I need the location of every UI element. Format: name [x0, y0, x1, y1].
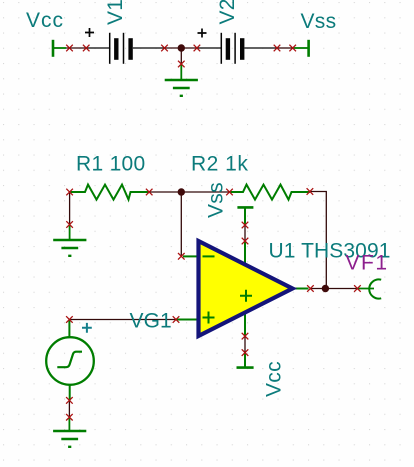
connection cross at R1 right pin	[146, 189, 153, 196]
connection cross at mid ground pin	[178, 61, 185, 68]
op-amp U1 pin stubs	[176, 256, 309, 319]
wire VG1 to ground	[68, 400, 70, 417]
wire V1 to mid junction	[165, 47, 198, 49]
junction dot node A (R1-R2-inverting input)	[178, 188, 185, 195]
connection cross at V2 left pin	[194, 45, 201, 52]
wire R1 left to ground	[69, 192, 71, 225]
connection cross at R2 left pin	[226, 189, 233, 196]
svg-text:VF1: VF1	[346, 252, 389, 275]
connection cross at Vss terminal pin	[289, 45, 296, 52]
op-amp U1 inverting input minus sign	[203, 255, 215, 257]
connection cross at VG1 top pin	[66, 316, 73, 323]
svg-text:Vss: Vss	[301, 10, 337, 33]
source VG1 circle	[46, 337, 94, 385]
terminal Vcc (op-amp positive supply T-bar)	[237, 311, 254, 368]
op-amp U1 triangle body	[199, 241, 293, 336]
wire Vcc terminal to V1	[66, 47, 88, 49]
op-amp U1 center plus sign	[240, 290, 252, 302]
connection cross at V1 left pin	[83, 45, 90, 52]
op-amp U1 non-inverting input plus sign	[203, 312, 215, 324]
voltage pin VF1 arc terminal	[369, 279, 381, 298]
ground (under R1)	[69, 225, 71, 241]
terminal Vss (top right jumper)	[293, 40, 309, 57]
svg-text:R1 100: R1 100	[76, 153, 146, 176]
source VG1 plus polarity mark	[82, 323, 92, 333]
source VG1 ramp waveform glyph	[57, 352, 82, 368]
svg-text:V1: V1	[104, 0, 127, 25]
connection cross at R1 left pin	[66, 189, 73, 196]
connection cross at R1 ground pin	[66, 221, 73, 228]
wire node A to R2 left	[181, 191, 229, 193]
wire VG1 to op-amp non-inverting input	[69, 319, 176, 321]
wire Vss supply terminal to op-amp pin	[244, 225, 246, 241]
resistor R2	[230, 185, 310, 200]
connection cross at VG1 bottom pin	[66, 397, 73, 404]
ground (under VG1)	[68, 417, 70, 431]
wire output node to VF1	[310, 288, 357, 290]
battery V1 plus polarity mark	[85, 28, 94, 37]
wire R1 right to node A	[149, 191, 181, 193]
wire node A to op-amp inverting input	[180, 192, 182, 256]
wire V2 right lead	[244, 47, 277, 49]
wire op-amp pin to Vcc supply terminal	[244, 336, 246, 353]
battery V2 plus polarity mark	[198, 29, 207, 38]
junction dot (V1-V2 mid rail)	[178, 44, 185, 51]
connection cross at op-amp output pin	[307, 285, 314, 292]
svg-text:VG1: VG1	[130, 310, 172, 333]
resistor R1	[70, 185, 150, 200]
connection cross at R2 right pin	[307, 188, 314, 195]
battery V2	[221, 33, 242, 64]
source VG1 bottom lead	[69, 385, 71, 401]
battery V1	[110, 33, 131, 64]
terminal Vcc (top left jumper)	[53, 40, 66, 57]
connection cross at Vss supply terminal pin	[242, 222, 249, 229]
source VG1 top lead	[68, 320, 70, 338]
svg-text:Vcc: Vcc	[26, 9, 64, 32]
wire V1 left lead	[88, 47, 110, 49]
wire V2 left lead	[197, 47, 221, 49]
connection cross at op-amp non-inverting input pin	[173, 316, 180, 323]
connection cross at op-amp negative supply pin	[242, 238, 249, 245]
wire mid junction to ground	[180, 48, 182, 65]
connection cross at V1 right pin	[161, 45, 168, 52]
wire R2 right feedback to output node	[310, 192, 326, 289]
junction dot (output node)	[322, 285, 329, 292]
voltage pin VF1 lead	[357, 288, 374, 290]
terminal Vss (op-amp negative supply T-bar)	[237, 207, 253, 265]
svg-text:Vcc: Vcc	[263, 361, 286, 397]
connection cross at VG1 ground pin	[66, 414, 73, 421]
connection cross at Vcc terminal pin	[66, 45, 73, 52]
ground (mid supply rail)	[180, 65, 182, 80]
svg-text:Vss: Vss	[205, 182, 228, 218]
connection cross at VF1 pin	[354, 285, 361, 292]
connection cross at op-amp positive supply pin	[242, 333, 249, 340]
svg-text:V2: V2	[216, 0, 239, 25]
wire V2 to Vss terminal	[277, 47, 293, 49]
svg-text:R2 1k: R2 1k	[191, 153, 248, 176]
connection cross at V2 right pin	[274, 45, 281, 52]
connection cross at Vcc supply terminal pin	[242, 349, 249, 356]
connection cross at op-amp inverting input pin	[178, 253, 185, 260]
wire V1 right lead	[133, 47, 165, 49]
